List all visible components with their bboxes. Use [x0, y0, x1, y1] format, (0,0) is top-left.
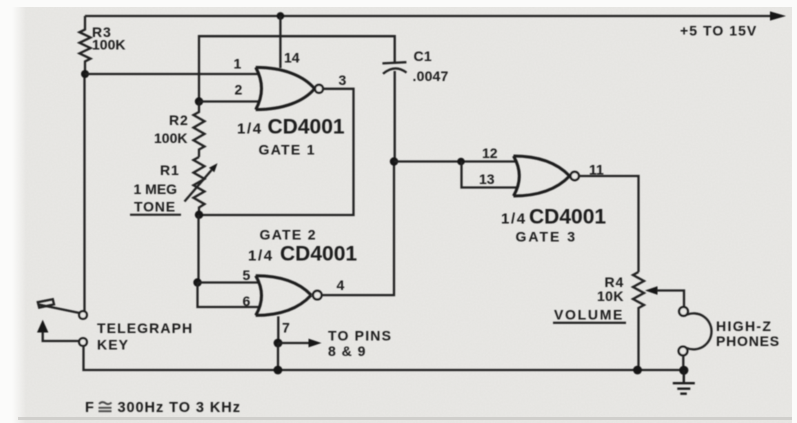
svg-text:100K: 100K: [154, 130, 187, 146]
op-amp U1 gate 3 (NOR): [514, 156, 579, 196]
svg-text:300Hz TO 3 KHz: 300Hz TO 3 KHz: [118, 400, 241, 416]
R1 wiper arrow: [185, 170, 212, 202]
wire: pin 14 drop: [279, 16, 281, 68]
op-amp U1 gate 2 (NOR): [256, 276, 322, 316]
potentiometer R1: [194, 157, 205, 215]
svg-text:C1: C1: [414, 48, 433, 64]
potentiometer R4: [633, 272, 644, 370]
node: R4 bottom junction: [633, 366, 642, 375]
svg-text:R1: R1: [160, 162, 180, 178]
wire: gate1 output feedback loop: [199, 89, 354, 215]
wire: gate1/2 node to gate3 inputs: [394, 160, 517, 162]
wire: pin 1 input: [85, 73, 260, 75]
node: R1 bottom junction: [195, 211, 203, 219]
resistor R2: [194, 102, 205, 158]
svg-text:6: 6: [243, 293, 251, 309]
wire: left rail down to key: [83, 74, 85, 311]
svg-text:CD4001: CD4001: [529, 206, 606, 229]
wire: +V power rail (top): [85, 15, 772, 17]
svg-text:13: 13: [479, 171, 495, 187]
key actuator arrow: [37, 320, 48, 333]
svg-text:4: 4: [337, 277, 345, 293]
node: ground junction: [679, 366, 688, 375]
wire: gate3 output down to R4: [579, 176, 639, 272]
svg-text:GATE 3: GATE 3: [516, 229, 578, 245]
svg-text:1/4: 1/4: [248, 248, 274, 265]
svg-text:14: 14: [284, 50, 300, 66]
capacitor C1: [382, 62, 406, 63]
ground: [673, 370, 695, 394]
phones jack terminal bottom: [679, 347, 688, 356]
svg-text:1/4: 1/4: [237, 121, 263, 138]
node: C1 bottom junction: [390, 157, 398, 165]
arrow to pins 8 & 9: [278, 342, 309, 344]
svg-text:1 MEG: 1 MEG: [134, 181, 178, 197]
svg-text:1: 1: [234, 56, 242, 72]
bottom page edge shadow: [18, 417, 792, 420]
wire: pin 13 U-link: [462, 162, 518, 188]
wire: pin 7 drop: [277, 316, 279, 343]
node: pin7 junction: [274, 339, 283, 348]
svg-text:F: F: [85, 400, 95, 416]
wire: pin 2 input: [199, 100, 260, 102]
phones jack terminal top: [679, 307, 688, 316]
wire: feedback box top edge: [199, 36, 395, 101]
wire: bottom terminal to ground node: [682, 355, 684, 370]
svg-text:8 & 9: 8 & 9: [328, 343, 366, 359]
svg-text:TO PINS: TO PINS: [328, 328, 392, 344]
node: junction R3 / pin1 wire: [81, 70, 89, 78]
node: power rail / pin 14 junction: [277, 12, 285, 20]
arrowhead on power rail: [770, 11, 786, 20]
key paddle: [38, 299, 54, 307]
svg-text:GATE 2: GATE 2: [260, 226, 317, 242]
svg-text:100K: 100K: [92, 37, 125, 53]
resistor R3: [80, 16, 91, 74]
svg-text:10K: 10K: [597, 288, 624, 304]
op-amp U1 gate 1 (NOR): [256, 67, 323, 109]
node: pin2 junction: [195, 97, 203, 105]
key contact circle top: [79, 311, 87, 319]
svg-text:3: 3: [339, 72, 347, 88]
node: pins 12/13 junction: [457, 158, 465, 166]
svg-text:+5 TO 15V: +5 TO 15V: [680, 23, 757, 39]
svg-text:7: 7: [282, 320, 290, 336]
wire: pin 5 input: [198, 281, 261, 283]
svg-text:12: 12: [482, 145, 498, 161]
svg-text:CD4001: CD4001: [280, 243, 357, 266]
svg-text:HIGH-Z: HIGH-Z: [716, 318, 772, 334]
node: pin5 junction: [193, 278, 201, 286]
key contact circle bottom: [79, 338, 87, 346]
svg-text:TELEGRAPH: TELEGRAPH: [97, 320, 193, 336]
wire: bottom rail: [84, 346, 684, 370]
R4 wiper arrow: [645, 286, 658, 294]
svg-text:VOLUME: VOLUME: [554, 307, 624, 323]
node: pin7 bottom junction: [274, 366, 283, 375]
svg-text:R2: R2: [169, 112, 189, 128]
wire: gate2 output to C1 node: [322, 162, 394, 296]
telegraph key arm: [39, 305, 80, 314]
wire: pin7 to bottom rail: [277, 343, 279, 370]
svg-text:2: 2: [235, 82, 243, 98]
svg-text:KEY: KEY: [97, 337, 129, 353]
phones body arc: [687, 313, 712, 349]
svg-text:.0047: .0047: [413, 68, 449, 84]
svg-text:TONE: TONE: [134, 199, 176, 215]
svg-text:CD4001: CD4001: [268, 116, 345, 139]
svg-text:1/4: 1/4: [501, 211, 527, 228]
wire: down to gate2 inputs: [197, 215, 199, 283]
svg-text:GATE 1: GATE 1: [259, 142, 316, 158]
wire: pin 6 U-link: [198, 283, 261, 308]
svg-text:PHONES: PHONES: [716, 333, 780, 349]
svg-text:5: 5: [243, 267, 251, 283]
